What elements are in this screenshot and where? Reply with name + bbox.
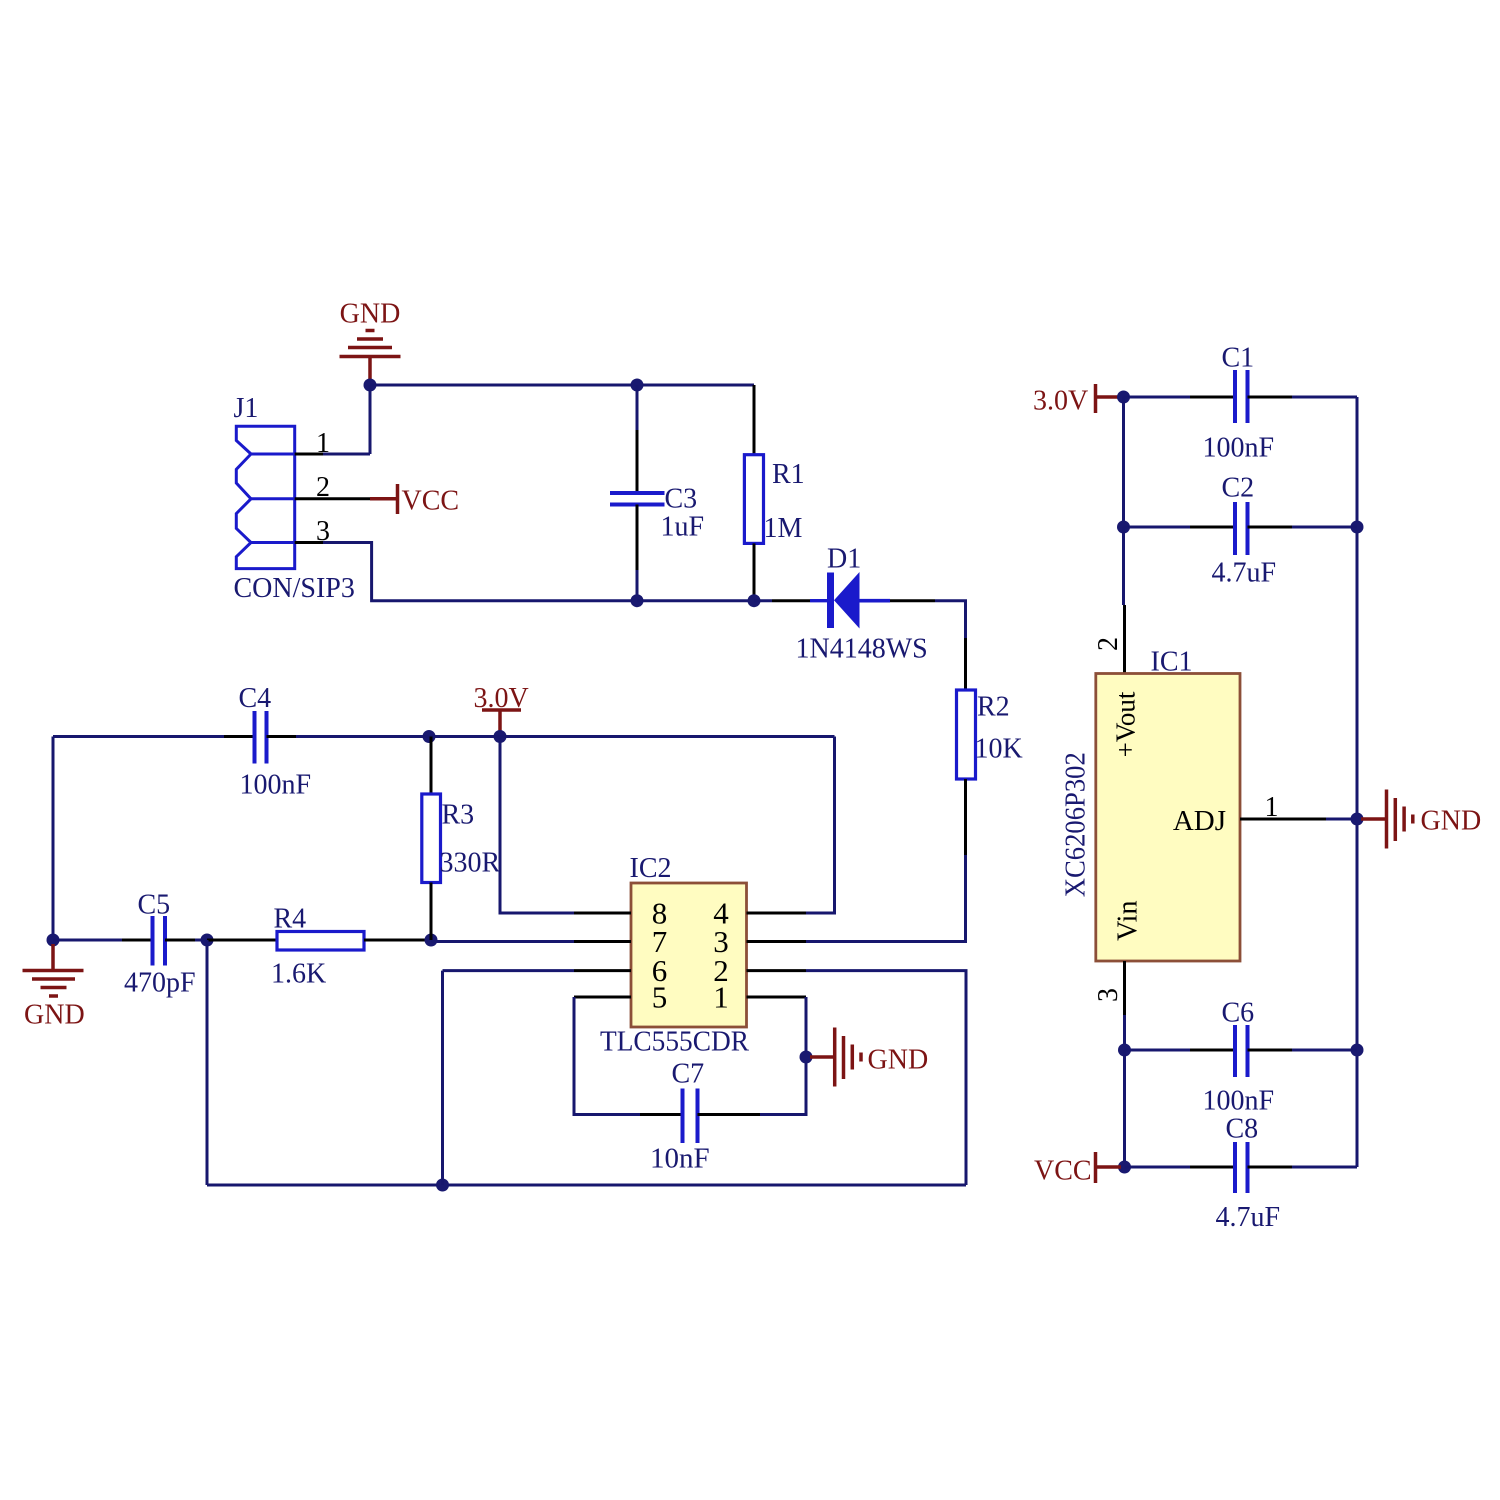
svg-text:2: 2 [316,472,330,503]
svg-text:5: 5 [652,980,668,1015]
svg-text:VCC: VCC [402,486,460,517]
power port GND (right) [1361,790,1481,849]
resistor R2 [957,638,1023,855]
svg-text:R2: R2 [977,692,1010,723]
pin IC1.2 [1123,605,1126,674]
wire left GND rail vertical [52,737,55,941]
resistor R1 [744,385,804,601]
capacitor C2 [1124,473,1358,589]
svg-text:TLC555CDR: TLC555CDR [600,1027,749,1058]
svg-text:GND: GND [1421,806,1482,837]
wire IC2 pin4 to 3.0V rail [806,737,835,914]
wire R4 node to IC2 pin7 [431,940,574,943]
wire GND rail top horizontal [370,384,754,387]
svg-text:R4: R4 [274,904,307,935]
svg-text:J1: J1 [234,393,259,424]
svg-text:100nF: 100nF [240,770,312,801]
pin IC2.7 [574,940,631,943]
svg-text:CON/SIP3: CON/SIP3 [234,573,355,604]
wire C7 right to IC2 pin1 [760,997,806,1115]
node IC2 GND junction [800,1051,813,1064]
wire C5 node down to bottom rail [206,940,209,1185]
svg-text:C7: C7 [672,1059,705,1090]
svg-text:100nF: 100nF [1203,1086,1275,1117]
power port 3.0V (left) [474,683,529,733]
capacitor C7 [640,1059,760,1175]
svg-text:1uF: 1uF [661,512,705,543]
svg-text:R3: R3 [442,800,475,831]
capacitor C5 [53,890,207,999]
svg-text:VCC: VCC [1034,1156,1092,1187]
svg-text:1: 1 [1265,792,1279,823]
power port VCC (J1.2) [370,484,459,517]
svg-text:ADJ: ADJ [1173,805,1226,837]
wire IC2 pin5 loop down to C7 [574,997,640,1115]
node bottom rail junction [436,1179,449,1192]
pin J1.1 [295,453,325,456]
diode D1 1N4148WS [754,544,935,665]
svg-text:D1: D1 [827,544,861,575]
svg-text:+Vout: +Vout [1111,691,1141,757]
wire right rail vertical [1356,397,1359,1167]
node C2 right junction [1351,521,1364,534]
wire 3.0V to IC2 pin8 [500,737,574,914]
capacitor C6 [1125,998,1358,1117]
svg-text:1N4148WS: 1N4148WS [796,634,928,665]
pin IC2.2 [747,969,807,972]
svg-text:2: 2 [1093,637,1124,651]
wire D1 to R2 top [935,601,966,638]
node R3 top junction [423,730,436,743]
power port GND (bottom left) [23,944,85,1031]
node C6 left junction [1118,1044,1131,1057]
svg-text:C3: C3 [665,484,698,515]
wire C2 node down to IC1 pin2 [1122,527,1125,605]
svg-text:C4: C4 [239,683,272,714]
wire J1 pin1 riser [369,385,372,454]
pin IC2.8 [574,912,631,915]
svg-text:1M: 1M [764,513,803,544]
svg-text:GND: GND [868,1045,929,1076]
connector J1 [234,393,355,604]
node VCC/C8 junction [1118,1161,1131,1174]
svg-text:C6: C6 [1222,998,1255,1029]
wire bottom rail [207,1184,966,1187]
node C4/C5 left junction [47,934,60,947]
wire J1.3 to lower rail [323,543,637,601]
pin IC2.5 [574,996,631,999]
pin J1.3 [295,541,325,544]
node GND right junction [1351,813,1364,826]
capacitor C1 [1124,343,1358,464]
node C6 right junction [1351,1044,1364,1057]
capacitor C3 [610,385,704,601]
pin J1.2 [295,497,370,500]
svg-text:3: 3 [1093,988,1124,1002]
svg-text:GND: GND [24,1000,85,1031]
pin IC2.4 [747,912,807,915]
wire J1.1 to GND node [323,453,370,456]
node R4/R3 junction [425,934,438,947]
wire 3.0V rail (C4 right to IC2 pin4 riser) [267,735,835,738]
capacitor C4 [53,683,311,801]
svg-text:GND: GND [340,299,401,330]
wire R2 bottom to IC2 pin3 [806,855,966,942]
resistor R3 [422,737,501,941]
svg-text:C5: C5 [138,890,171,921]
wire pin6 loop vertical [441,971,444,1185]
svg-text:3.0V: 3.0V [1033,386,1088,417]
wire left rail 3.0V to C2 [1122,397,1125,527]
op-amp/timer IC2 TLC555CDR body [600,853,749,1058]
node C2 left junction [1117,521,1130,534]
pin IC1.1 [1240,818,1326,821]
svg-text:C1: C1 [1222,343,1255,374]
svg-text:4.7uF: 4.7uF [1216,1202,1281,1233]
svg-text:470pF: 470pF [124,968,196,999]
node 3.0V junction [494,730,507,743]
wire C6 node down to VCC node [1123,1050,1126,1167]
wire pin6 loop horizontal [443,969,575,972]
node C3 bottom junction [631,594,644,607]
node R1 bottom junction [748,594,761,607]
pin IC2.6 [574,969,631,972]
node C3 top junction [631,379,644,392]
svg-text:4.7uF: 4.7uF [1212,558,1277,589]
power port GND (IC2) [810,1028,928,1087]
svg-text:1: 1 [713,980,729,1015]
svg-text:C8: C8 [1226,1114,1259,1145]
svg-text:1.6K: 1.6K [271,959,326,990]
power port VCC (right) [1034,1152,1121,1187]
power port 3.0V (right) [1033,384,1120,417]
power port GND (top) [340,299,401,383]
wire lower rail C3 to R1 [637,599,754,602]
wire IC1 pin1 to right rail [1326,818,1357,821]
svg-text:Vin: Vin [1112,901,1143,941]
capacitor C8 [1125,1114,1358,1234]
svg-text:IC2: IC2 [630,853,672,884]
regulator IC1 XC6206P302 body [1060,647,1240,962]
svg-text:C2: C2 [1222,473,1255,504]
svg-text:10nF: 10nF [650,1143,710,1175]
node GND-top junction [364,379,377,392]
resistor R4 [207,904,431,990]
pin IC2.1 [747,996,807,999]
svg-text:330R: 330R [440,848,501,879]
pin IC1.3 [1123,961,1126,1015]
svg-text:R1: R1 [772,459,805,490]
node C5/R4 junction [201,934,214,947]
wire IC1 pin3 to C6 node [1123,1015,1126,1050]
wire IC2 pin2 to bottom rail [806,971,966,1185]
node 3.0V right junction [1117,391,1130,404]
svg-text:100nF: 100nF [1203,433,1275,464]
svg-text:10K: 10K [975,734,1023,765]
svg-text:XC6206P302: XC6206P302 [1060,752,1091,897]
pin IC2.3 [747,940,807,943]
